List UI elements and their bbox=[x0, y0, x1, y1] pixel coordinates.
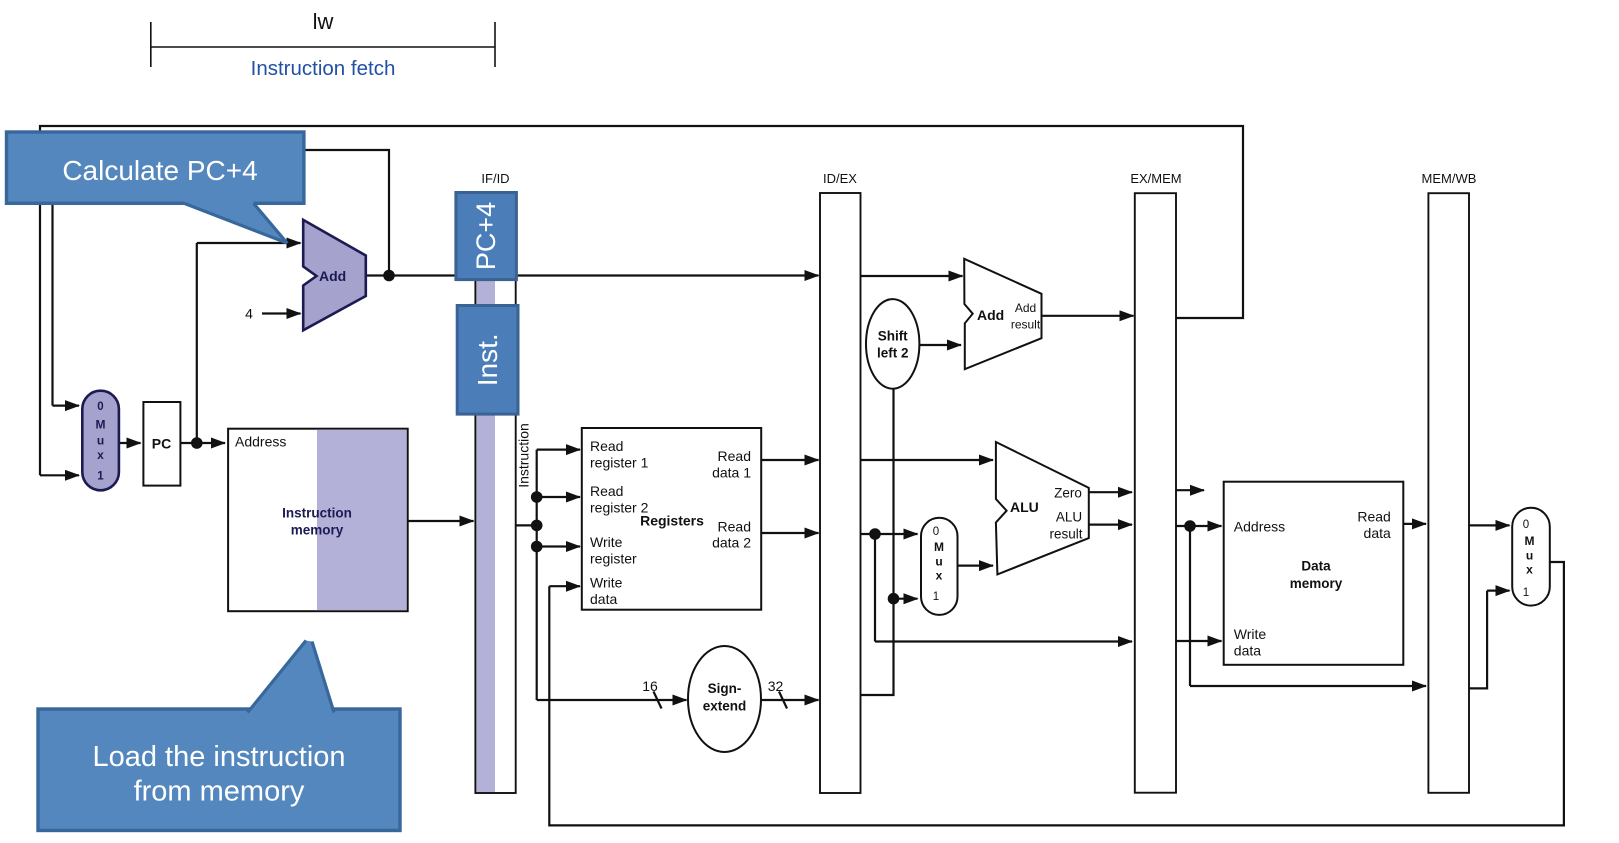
mux M1 (PC source mux) bbox=[82, 391, 119, 491]
svg-text:ID/EX: ID/EX bbox=[823, 171, 857, 186]
svg-text:Inst.: Inst. bbox=[472, 333, 503, 386]
junction instruction bus at write register bbox=[531, 541, 543, 553]
svg-text:Read: Read bbox=[718, 519, 751, 535]
svg-text:1: 1 bbox=[97, 471, 104, 483]
wire ALU result to EX/MEM bbox=[1089, 523, 1132, 525]
svg-text:u: u bbox=[1526, 549, 1533, 563]
svg-text:PC: PC bbox=[152, 436, 171, 452]
svg-text:Write: Write bbox=[1234, 626, 1267, 642]
svg-text:Sign-: Sign- bbox=[708, 681, 742, 696]
junction sign-extend branch to mux bbox=[888, 593, 900, 605]
svg-text:1: 1 bbox=[933, 591, 939, 603]
instruction memory bbox=[228, 429, 408, 612]
adder Add (branch target) bbox=[964, 259, 1041, 369]
svg-text:Instruction: Instruction bbox=[516, 423, 532, 488]
mux M2 (ALU operand mux) bbox=[921, 518, 958, 615]
wire to Read register 1 bbox=[537, 449, 580, 451]
svg-text:0: 0 bbox=[933, 526, 939, 538]
svg-text:result: result bbox=[1011, 318, 1041, 332]
mux M3 (write-back mux) bbox=[1512, 508, 1550, 606]
svg-text:Address: Address bbox=[1234, 519, 1285, 535]
svg-text:IF/ID: IF/ID bbox=[481, 171, 509, 186]
wire Add output to PC+4 pipeline field bbox=[366, 274, 456, 276]
registers block bbox=[582, 428, 761, 610]
register PC bbox=[143, 402, 180, 486]
wire Read data 2 to ID/EX bbox=[761, 532, 818, 534]
svg-text:Shift: Shift bbox=[878, 329, 908, 344]
wire PC+4 from ID/EX to branch Add bbox=[861, 275, 963, 277]
wire Read data 2 from ID/EX to ALU mux input 0 bbox=[861, 533, 918, 535]
junction instruction bus at read register 2 bbox=[531, 491, 543, 503]
svg-text:Data: Data bbox=[1301, 559, 1331, 574]
pipeline register MEM/WB bbox=[1422, 171, 1477, 793]
pipeline register EX/MEM bbox=[1130, 171, 1181, 793]
svg-text:Load the instruction: Load the instruction bbox=[92, 741, 345, 773]
svg-text:memory: memory bbox=[291, 523, 344, 538]
wire ALU result from MEM/WB to WB mux input 1 bbox=[1469, 591, 1487, 689]
callout Load the instruction from memory bbox=[38, 641, 400, 831]
wire Read data from MEM/WB to WB mux input 0 bbox=[1469, 524, 1510, 526]
svg-text:from memory: from memory bbox=[134, 776, 305, 808]
svg-text:data: data bbox=[590, 591, 617, 607]
instruction bus out of IF/ID bbox=[516, 524, 537, 526]
wire to Write register bbox=[537, 545, 580, 547]
wire sign-extend value from ID/EX up to Shift left 2 bbox=[861, 388, 894, 695]
pipeline register ID/EX bbox=[820, 171, 861, 793]
junction read data 2 branch bbox=[869, 528, 881, 540]
adder Add (PC+4) bbox=[303, 220, 366, 330]
data memory bbox=[1224, 482, 1404, 665]
svg-text:x: x bbox=[936, 569, 943, 583]
wire Shift left 2 to branch Add bbox=[919, 344, 961, 346]
svg-text:4: 4 bbox=[245, 306, 253, 322]
wire branch-target loop (EX/MEM Add result back to PC mux input 1) bbox=[40, 126, 1243, 475]
pipeline register IF/ID bbox=[475, 171, 515, 793]
svg-text:Write: Write bbox=[590, 575, 623, 591]
callout Calculate PC+4 bbox=[7, 132, 304, 243]
svg-text:M: M bbox=[1525, 534, 1535, 548]
wire Read data 1 to ID/EX bbox=[761, 459, 818, 461]
svg-text:Registers: Registers bbox=[640, 513, 704, 529]
write-back wire from WB mux to Registers Write data bbox=[549, 562, 1564, 825]
sign-extend unit bbox=[688, 646, 761, 752]
svg-text:0: 0 bbox=[1523, 519, 1529, 531]
wire Zero to EX/MEM bbox=[1089, 491, 1132, 493]
svg-text:M: M bbox=[96, 418, 106, 432]
wire PC+4 feedback to PC mux input 0 bbox=[53, 150, 390, 406]
wire ALU mux output to ALU input 2 bbox=[958, 564, 994, 566]
wire PC up to Add input 1 bbox=[196, 243, 198, 443]
svg-text:register: register bbox=[590, 551, 637, 567]
svg-text:Address: Address bbox=[235, 434, 286, 450]
svg-text:data: data bbox=[1234, 643, 1261, 659]
svg-text:ALU: ALU bbox=[1010, 499, 1039, 515]
svg-text:M: M bbox=[934, 540, 944, 554]
lw stage bracket bbox=[151, 9, 495, 67]
ALU bbox=[996, 442, 1089, 574]
wire Add result to EX/MEM bbox=[1042, 315, 1134, 317]
wire Read data to MEM/WB bbox=[1403, 523, 1426, 525]
svg-text:Add: Add bbox=[1015, 301, 1036, 315]
wire mux to PC bbox=[119, 442, 141, 444]
wire Read data 1 from ID/EX to ALU input 1 bbox=[861, 459, 994, 461]
junction ALU result branch bbox=[1184, 520, 1196, 532]
junction instruction bus entry bbox=[531, 520, 543, 532]
svg-text:EX/MEM: EX/MEM bbox=[1130, 171, 1181, 186]
svg-text:register 1: register 1 bbox=[590, 455, 649, 471]
svg-text:data 2: data 2 bbox=[712, 535, 751, 551]
svg-text:Zero: Zero bbox=[1054, 486, 1082, 501]
wire ALU result from EX/MEM to Data memory Address bbox=[1176, 525, 1222, 527]
svg-text:Read: Read bbox=[590, 438, 623, 454]
wire Read data 2 down and to EX/MEM (memory write data) bbox=[874, 534, 876, 642]
wire instruction memory output to IF/ID bbox=[408, 520, 474, 522]
svg-text:Read: Read bbox=[1357, 509, 1390, 525]
svg-text:data 1: data 1 bbox=[712, 465, 751, 481]
pipeline field PC+4 (blue box) bbox=[456, 193, 517, 280]
pipeline field Inst. (blue box) bbox=[457, 306, 518, 415]
svg-text:Instruction fetch: Instruction fetch bbox=[251, 57, 396, 80]
wire Sign-extend output width 32 to ID/EX bbox=[761, 699, 819, 701]
svg-text:PC+4: PC+4 bbox=[471, 202, 501, 270]
svg-text:left 2: left 2 bbox=[877, 346, 909, 361]
wire to Read register 2 bbox=[537, 496, 580, 498]
svg-text:Add: Add bbox=[319, 268, 346, 284]
svg-text:ALU: ALU bbox=[1056, 510, 1082, 525]
wire write data from EX/MEM to Data memory bbox=[1176, 640, 1222, 642]
svg-text:32: 32 bbox=[768, 678, 784, 694]
svg-text:1: 1 bbox=[1523, 587, 1529, 599]
svg-text:x: x bbox=[97, 448, 104, 462]
junction PC output node bbox=[191, 437, 203, 449]
svg-text:16: 16 bbox=[642, 678, 658, 694]
wire Zero out of EX/MEM bbox=[1176, 489, 1204, 491]
wire PC+4 from IF/ID to ID/EX bbox=[516, 274, 818, 276]
svg-text:Read: Read bbox=[718, 448, 751, 464]
svg-text:result: result bbox=[1049, 527, 1082, 542]
svg-text:memory: memory bbox=[1290, 576, 1343, 591]
svg-text:Instruction: Instruction bbox=[282, 506, 352, 521]
svg-text:Read: Read bbox=[590, 483, 623, 499]
shift left 2 unit bbox=[866, 299, 919, 389]
svg-text:data: data bbox=[1364, 525, 1391, 541]
svg-text:x: x bbox=[1526, 563, 1533, 577]
junction Add output node bbox=[383, 270, 395, 282]
svg-text:Write: Write bbox=[590, 534, 623, 550]
wire sign-extend value to ALU mux input 1 bbox=[894, 598, 918, 600]
wire to Sign-extend with width 16 bbox=[537, 699, 687, 701]
svg-text:u: u bbox=[97, 434, 104, 448]
wire PC to instruction memory Address bbox=[180, 442, 225, 444]
svg-text:Add: Add bbox=[977, 307, 1004, 323]
svg-text:extend: extend bbox=[703, 699, 747, 714]
svg-text:MEM/WB: MEM/WB bbox=[1422, 171, 1477, 186]
wire ALU result down to MEM/WB bbox=[1189, 526, 1191, 686]
svg-text:u: u bbox=[935, 555, 942, 569]
svg-text:0: 0 bbox=[97, 401, 103, 413]
svg-text:lw: lw bbox=[313, 9, 334, 34]
svg-text:Calculate PC+4: Calculate PC+4 bbox=[62, 155, 257, 186]
